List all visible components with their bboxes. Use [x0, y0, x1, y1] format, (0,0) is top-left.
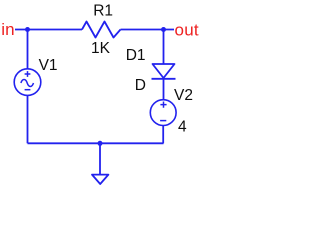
- ground symbol: [92, 175, 108, 184]
- svg-text:D: D: [135, 77, 146, 94]
- svg-text:out: out: [175, 21, 199, 40]
- voltage source V2: [150, 100, 176, 126]
- junction node out/D1: [161, 27, 166, 32]
- diode D1: [152, 64, 176, 79]
- svg-text:D1: D1: [126, 47, 146, 64]
- junction node ground: [98, 141, 103, 146]
- svg-text:1K: 1K: [91, 40, 111, 57]
- svg-text:4: 4: [178, 119, 187, 136]
- wire to ground: [99, 143, 101, 174]
- svg-text:V1: V1: [39, 57, 58, 74]
- bottom wire: [28, 142, 164, 144]
- svg-text:in: in: [1, 20, 14, 39]
- svg-text:V2: V2: [174, 87, 193, 104]
- junction node in/V1: [25, 27, 30, 32]
- voltage source V1: [14, 69, 41, 96]
- wire out to diode D1: [163, 30, 165, 65]
- svg-text:R1: R1: [93, 3, 113, 20]
- wire V1 bottom: [27, 95, 29, 143]
- wire V2 bottom: [162, 125, 164, 143]
- wire diode D1 to V2: [163, 79, 165, 100]
- wire in to resistor R1: [15, 29, 82, 31]
- wire resistor R1 to out: [121, 29, 175, 31]
- resistor R1: [82, 22, 121, 38]
- wire V1 top: [27, 30, 29, 69]
